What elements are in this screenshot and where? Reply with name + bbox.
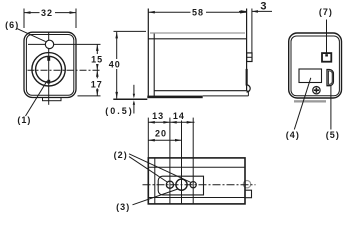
svg-text:(5): (5) — [326, 130, 340, 140]
dim 17 arrows — [96, 70, 99, 77]
back view screw — [313, 87, 320, 94]
side view right edge — [246, 9, 248, 92]
dim 0.5 upper arrow stem — [133, 85, 135, 97]
svg-text:(6): (6) — [5, 20, 19, 30]
bottom hole small left (2) — [166, 181, 173, 188]
dim 0.5 arrows — [133, 94, 135, 99]
dim 32 line — [24, 12, 76, 14]
side view rear square bump divider — [247, 56, 252, 58]
side view rear square bump — [247, 53, 252, 62]
bottom view rear screw bump gray — [243, 181, 250, 188]
svg-text:(3): (3) — [116, 202, 130, 212]
dim 58 arrows — [148, 11, 155, 14]
back view D connector (5) outer — [327, 70, 333, 86]
small circle (6) — [45, 40, 53, 48]
lens horizontal centerline — [28, 69, 101, 71]
dim 0.5 lower arrow stem — [133, 102, 135, 114]
back view outer body — [289, 33, 342, 98]
dim 58 line — [148, 11, 246, 13]
leader (1) — [26, 81, 48, 116]
side view rear dark connector bar — [246, 69, 248, 86]
side view top edge gray — [150, 32, 245, 34]
front bottom extension line — [78, 95, 101, 97]
dim 32 extension left — [23, 9, 25, 29]
bottom tripod hole (3) — [176, 179, 187, 190]
bottom view outer rect — [148, 158, 245, 204]
side view mounting plate bar — [147, 96, 202, 99]
svg-text:15: 15 — [91, 54, 103, 64]
dim 15 arrows — [96, 44, 99, 51]
lens tick top — [47, 57, 50, 61]
lens inner circle — [36, 56, 62, 82]
svg-text:3: 3 — [260, 0, 267, 12]
dim 15-17 line — [96, 44, 98, 96]
dim 40 line — [116, 32, 118, 99]
leader (2) near — [129, 157, 167, 182]
bottom view rear bump — [245, 190, 252, 198]
dim 13-14 line — [148, 121, 194, 123]
side view bottom right step — [247, 91, 249, 96]
lens tick bottom — [47, 80, 50, 84]
dim 13 arrows — [148, 121, 155, 124]
svg-text:20: 20 — [155, 129, 167, 139]
back view connector rect (4) — [299, 69, 322, 83]
lens outer circle (1) — [32, 53, 65, 86]
bottom hole small right (2) — [190, 182, 196, 188]
dim 3 extension — [251, 9, 253, 53]
dim 40 top tick — [114, 30, 147, 32]
dim 20 line — [148, 139, 181, 141]
svg-text:(0.5): (0.5) — [105, 106, 134, 116]
svg-text:14: 14 — [173, 111, 185, 121]
bottom view inner line top — [148, 166, 245, 168]
side view front seam — [153, 33, 155, 96]
svg-text:(2): (2) — [114, 150, 128, 160]
dim 32 arrows — [24, 11, 31, 14]
back view inner bezel — [291, 36, 339, 96]
leader line (4) — [294, 78, 311, 130]
back view D connector inner — [328, 71, 332, 84]
bottom view centerline dash-dot — [143, 184, 256, 186]
dim 14 arrows — [170, 121, 177, 124]
svg-text:(4): (4) — [286, 130, 300, 140]
front view line through small circle — [28, 43, 101, 45]
svg-text:58: 58 — [192, 7, 204, 17]
arrowheads — [24, 10, 258, 141]
dim 40 arrows — [115, 32, 118, 39]
front view outer body — [24, 32, 76, 97]
svg-text:(7): (7) — [319, 7, 333, 17]
front view bottom tab — [43, 98, 62, 101]
plate extension line left (0.5 plate) — [113, 98, 147, 100]
svg-text:(1): (1) — [17, 115, 31, 125]
white backings — [40, 8, 207, 89]
leader (3) — [133, 189, 179, 205]
leader line (7) — [326, 20, 328, 53]
dim 3 line right part — [252, 10, 272, 12]
side view bottom thin line — [203, 95, 249, 97]
dim 32 extension right — [75, 9, 77, 29]
bottom view mounting plate — [158, 176, 203, 195]
ext line hole2 — [192, 118, 194, 204]
side view left edge — [147, 9, 149, 96]
side view rear screw bump — [247, 85, 251, 92]
bottom view inner line bottom — [148, 197, 245, 199]
dim 20 arrows — [148, 139, 155, 142]
ext line tripod — [181, 121, 183, 204]
side view body bottom — [154, 90, 246, 92]
leader line (5) — [330, 86, 332, 130]
dim 3 arrows — [241, 10, 247, 13]
bottom view front seam — [154, 158, 156, 204]
front view inner bezel — [26, 35, 73, 96]
back view DIP square (7) — [322, 53, 331, 62]
back view screw cross — [314, 88, 319, 93]
back view DIP inner notch — [325, 54, 328, 56]
dim 3 line left part — [239, 10, 247, 12]
leader (6) — [17, 29, 46, 42]
svg-text:32: 32 — [41, 8, 53, 18]
svg-text:13: 13 — [152, 111, 164, 121]
svg-text:40: 40 — [109, 59, 121, 69]
back view plate bar gray — [294, 100, 326, 102]
leader (2) far — [129, 154, 191, 183]
side view lid line — [148, 38, 246, 40]
svg-text:17: 17 — [91, 79, 103, 89]
front view vertical centerline — [48, 32, 50, 105]
ext line hole1 — [169, 118, 171, 204]
ext line bottom left — [147, 118, 149, 158]
